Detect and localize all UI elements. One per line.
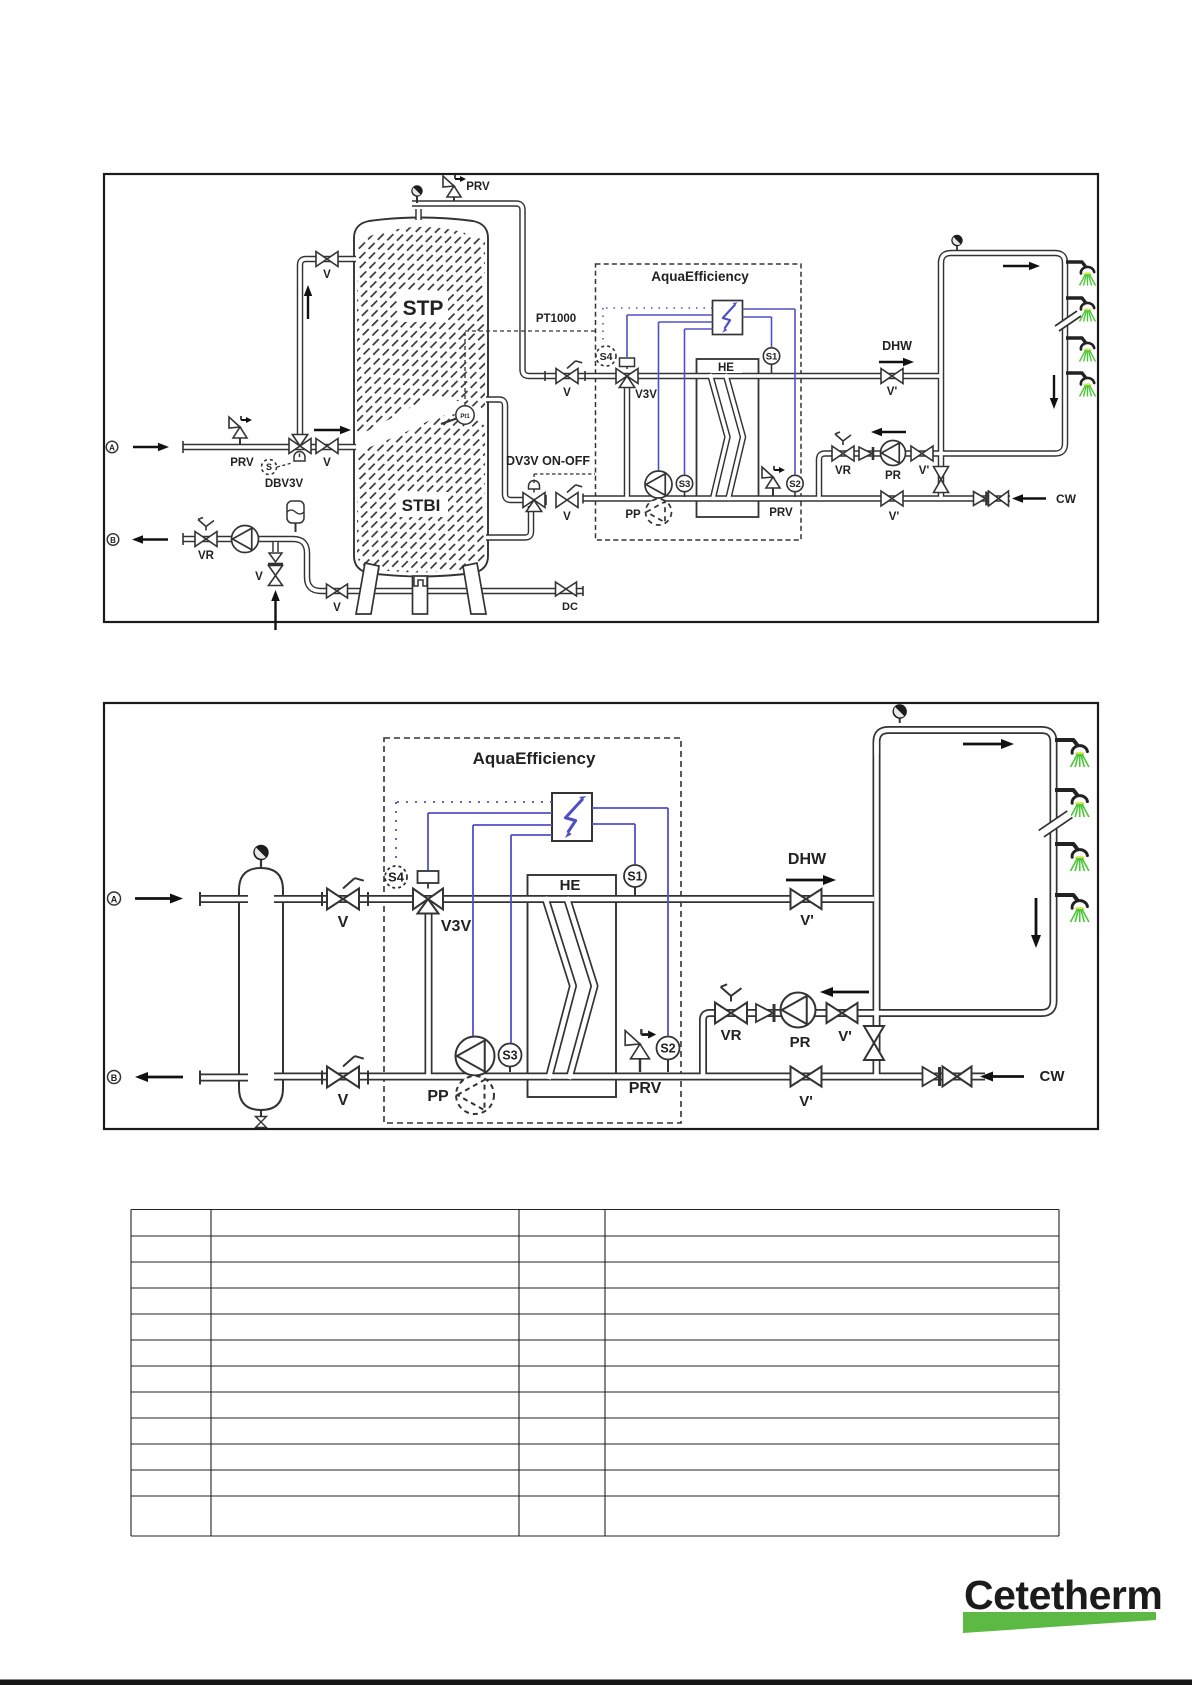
valve V'' vertical 2 xyxy=(864,1026,884,1060)
shower tap 1 xyxy=(1066,262,1087,269)
tank hatch upper STP zone xyxy=(357,227,485,436)
svg-text:V: V xyxy=(323,269,331,281)
svg-text:V': V' xyxy=(887,386,898,398)
svg-text:DC: DC xyxy=(562,601,578,613)
arrow DHW flow 2 xyxy=(786,879,823,882)
svg-text:S2: S2 xyxy=(660,1042,675,1056)
svg-text:STP: STP xyxy=(403,297,444,320)
dotted sensor line to S4 2 xyxy=(396,801,552,803)
arrow A flow xyxy=(133,446,158,448)
svg-text:A: A xyxy=(109,444,115,453)
valve V after DV3V xyxy=(556,493,578,508)
arrow B flow 2 xyxy=(148,1076,183,1079)
svg-text:PRV: PRV xyxy=(466,181,490,193)
control wire to S3 2 xyxy=(511,834,552,836)
loop gauge ball xyxy=(956,245,958,250)
actuated diverting valve DV3V xyxy=(523,493,545,508)
svg-text:PRV: PRV xyxy=(230,457,254,469)
arrow flow into tank xyxy=(314,429,340,431)
parts table xyxy=(131,1210,1059,1537)
svg-text:HE: HE xyxy=(718,362,734,374)
pump PP xyxy=(645,471,672,498)
dotted sensor line to S4 xyxy=(603,307,713,309)
safety valve PRV tank top xyxy=(447,186,461,197)
sensor S2 xyxy=(794,491,796,497)
valve V' after PR xyxy=(911,446,933,461)
heat exchanger HE outline xyxy=(697,359,759,517)
check valve CW inlet xyxy=(974,492,986,506)
diagram 2 frame xyxy=(104,703,1098,1129)
valve V make-up xyxy=(269,566,283,586)
svg-text:V': V' xyxy=(889,511,900,523)
svg-text:V: V xyxy=(333,602,341,614)
arrow riser flow up xyxy=(307,296,309,319)
pipe break symbol 2 xyxy=(1039,811,1073,837)
pump B line xyxy=(232,526,259,553)
control wire to PP 2 xyxy=(473,824,552,826)
svg-text:DHW: DHW xyxy=(882,339,912,353)
svg-text:V: V xyxy=(338,914,349,931)
pump PP 2 xyxy=(456,1037,495,1076)
valve V' on CW xyxy=(881,491,903,506)
svg-text:PRV: PRV xyxy=(629,1080,662,1097)
svg-text:V': V' xyxy=(799,1093,813,1110)
control wire to PP xyxy=(659,321,713,323)
separator gauge ball xyxy=(260,860,262,867)
svg-text:B: B xyxy=(110,536,116,545)
controller unit 2 xyxy=(552,793,592,841)
svg-text:PRV: PRV xyxy=(769,507,793,519)
shower tap 3 xyxy=(1066,338,1087,345)
sensor S4 (dashed) xyxy=(596,346,616,366)
valve V' after PR 2 xyxy=(827,1003,858,1023)
three-way valve V3V 2 xyxy=(413,889,443,910)
pipe: HE 2 plate channel B xyxy=(200,895,248,903)
shower tap 2-1 xyxy=(1055,740,1079,747)
sensor S3 xyxy=(684,491,686,497)
svg-text:A: A xyxy=(111,895,118,905)
svg-text:V': V' xyxy=(838,1028,852,1045)
circulation pump PR 2 xyxy=(781,993,816,1028)
svg-text:Pt1: Pt1 xyxy=(460,414,470,420)
svg-text:VR: VR xyxy=(721,1027,742,1044)
svg-text:V: V xyxy=(323,457,331,469)
svg-text:STBI: STBI xyxy=(402,496,441,515)
check valve make-up xyxy=(269,553,282,562)
svg-text:V: V xyxy=(563,511,571,523)
sensor S3 2 xyxy=(509,1067,511,1072)
valve V riser xyxy=(316,252,338,267)
svg-text:S3: S3 xyxy=(679,479,691,490)
arrow loop down flow xyxy=(1053,375,1055,398)
valve V on B line 2 xyxy=(327,1067,359,1088)
svg-text:S1: S1 xyxy=(627,870,642,884)
svg-text:CW: CW xyxy=(1056,492,1077,506)
arrow circulation return 2 xyxy=(833,991,869,994)
diagram 1 frame xyxy=(104,174,1098,622)
relief valve PRV (box) xyxy=(772,488,774,496)
expansion vessel xyxy=(295,523,297,532)
valve V drain line xyxy=(327,584,348,598)
valve V before V3V xyxy=(556,369,578,384)
hydraulic separator xyxy=(239,868,283,1110)
svg-text:CW: CW xyxy=(1040,1068,1066,1085)
standby pump PP (dashed) xyxy=(646,499,672,525)
tank legs xyxy=(356,563,379,614)
svg-text:DHW: DHW xyxy=(788,851,827,868)
three-way valve V3V xyxy=(616,369,638,384)
valve V' DHW xyxy=(881,369,903,384)
valve CW inlet xyxy=(989,491,1009,506)
arrow circulation return xyxy=(882,431,906,433)
sensor S4 2 (dashed) xyxy=(385,866,407,888)
svg-text:S3: S3 xyxy=(502,1049,517,1063)
flange ticks xyxy=(182,441,184,453)
svg-text:V': V' xyxy=(919,465,930,477)
control wire to S2 2 xyxy=(592,807,668,809)
AquaEfficiency enclosure 2 (dashed) xyxy=(384,738,681,1123)
svg-text:V: V xyxy=(338,1092,349,1109)
node B circle xyxy=(107,534,119,546)
svg-text:S1: S1 xyxy=(766,351,778,362)
sensor S1 xyxy=(771,363,773,373)
svg-text:PT1000: PT1000 xyxy=(536,313,576,325)
svg-text:B: B xyxy=(111,1073,118,1083)
dashed control line DV3V xyxy=(533,474,535,483)
shower tap 4 xyxy=(1066,373,1087,380)
sensor Pt1 xyxy=(456,406,474,424)
control wire to S3 xyxy=(685,328,713,330)
controller unit xyxy=(713,301,743,335)
loop gauge ball 2 xyxy=(899,718,901,723)
pipe break symbol xyxy=(1055,311,1081,331)
valve V'' vertical xyxy=(934,467,949,493)
svg-text:PR: PR xyxy=(885,470,902,482)
label HE 2 xyxy=(551,876,589,892)
dashed PT1000 line xyxy=(464,331,466,406)
heat exchanger HE 2 outline xyxy=(528,875,617,1097)
control wire to V3V 2 xyxy=(428,812,552,814)
svg-text:V3V: V3V xyxy=(635,389,657,401)
node B circle 2 xyxy=(108,1071,121,1084)
shower tap 2-3 xyxy=(1055,844,1079,851)
valve V on A line xyxy=(316,439,338,454)
relief valve PRV 2 xyxy=(639,1058,641,1072)
shower tap 2-4 xyxy=(1055,895,1079,902)
svg-text:VR: VR xyxy=(835,465,852,477)
storage tank STP/STBI xyxy=(354,218,488,577)
arrow loop down flow 2 xyxy=(1035,898,1038,935)
shower tap 2-2 xyxy=(1055,790,1079,797)
control wire to S1 2 xyxy=(592,823,635,825)
valve V' DHW 2 xyxy=(791,889,822,909)
svg-text:S: S xyxy=(266,462,272,472)
tank bottom fitting xyxy=(414,577,427,586)
svg-text:S4: S4 xyxy=(388,870,405,885)
pipe: HE plate channel B xyxy=(183,444,356,451)
arrow DHW flow xyxy=(879,361,903,363)
arrow CW flow xyxy=(1023,497,1046,499)
svg-text:VR: VR xyxy=(198,550,215,562)
svg-text:DV3V ON-OFF: DV3V ON-OFF xyxy=(506,454,590,468)
svg-text:PP: PP xyxy=(427,1088,449,1105)
standby pump PP 2 (dashed) xyxy=(456,1076,494,1114)
separator drain valve xyxy=(260,1110,262,1116)
label HE xyxy=(711,360,742,373)
valve V on A line 2 xyxy=(327,889,359,910)
svg-text:S4: S4 xyxy=(600,351,613,363)
check valve circulation xyxy=(859,447,872,460)
svg-text:V: V xyxy=(563,387,571,399)
node A circle 2 xyxy=(108,892,121,905)
svg-text:S2: S2 xyxy=(789,479,801,490)
valve VR 2 xyxy=(715,1003,747,1024)
check valve CW inlet 2 xyxy=(923,1067,939,1086)
arrow loop top flow xyxy=(1003,265,1029,267)
safety valve PRV on A line xyxy=(233,427,247,438)
svg-text:AquaEfficiency: AquaEfficiency xyxy=(651,269,749,284)
control wire to S2 xyxy=(743,308,796,310)
sensor S2 2 xyxy=(667,1059,669,1072)
bottom page edge strip xyxy=(0,1680,1192,1685)
three-way valve DBV3V xyxy=(289,439,311,454)
sensor S1 2 xyxy=(634,887,636,895)
svg-text:V': V' xyxy=(800,912,814,929)
shower tap 2 xyxy=(1066,298,1087,305)
circulation pump PR xyxy=(881,441,906,466)
valve DC xyxy=(556,582,577,596)
svg-text:V3V: V3V xyxy=(441,918,472,935)
svg-text:PR: PR xyxy=(790,1034,811,1051)
arrow CW flow 2 xyxy=(993,1075,1024,1078)
sensor S (DBV3V) xyxy=(262,460,277,475)
flange ticks 2 xyxy=(199,892,201,906)
arrow loop top flow 2 xyxy=(963,743,1001,746)
node A circle xyxy=(106,441,118,453)
valve CW inlet 2 xyxy=(943,1067,972,1087)
arrow B flow xyxy=(143,538,168,540)
svg-text:PP: PP xyxy=(625,509,641,521)
Cetetherm logo green swoosh xyxy=(963,1612,1156,1633)
control wire to V3V xyxy=(627,314,713,316)
arrow make-up inlet xyxy=(274,601,276,630)
arrow A flow 2 xyxy=(135,897,170,900)
svg-text:DBV3V: DBV3V xyxy=(265,478,304,490)
valve VR circulation xyxy=(832,446,854,461)
valve VR on B line xyxy=(195,532,217,547)
svg-text:Cetetherm: Cetetherm xyxy=(964,1572,1162,1618)
AquaEfficiency enclosure (dashed) xyxy=(596,264,802,540)
valve V' on CW 2 xyxy=(791,1067,822,1087)
svg-text:AquaEfficiency: AquaEfficiency xyxy=(473,749,596,768)
tank top gauge ball xyxy=(416,196,418,203)
control wire to S1 xyxy=(743,316,772,318)
tank hatch lower STBI zone xyxy=(357,414,485,572)
svg-text:HE: HE xyxy=(560,877,581,894)
svg-text:V: V xyxy=(255,571,263,583)
check valve 2 xyxy=(756,1004,773,1022)
